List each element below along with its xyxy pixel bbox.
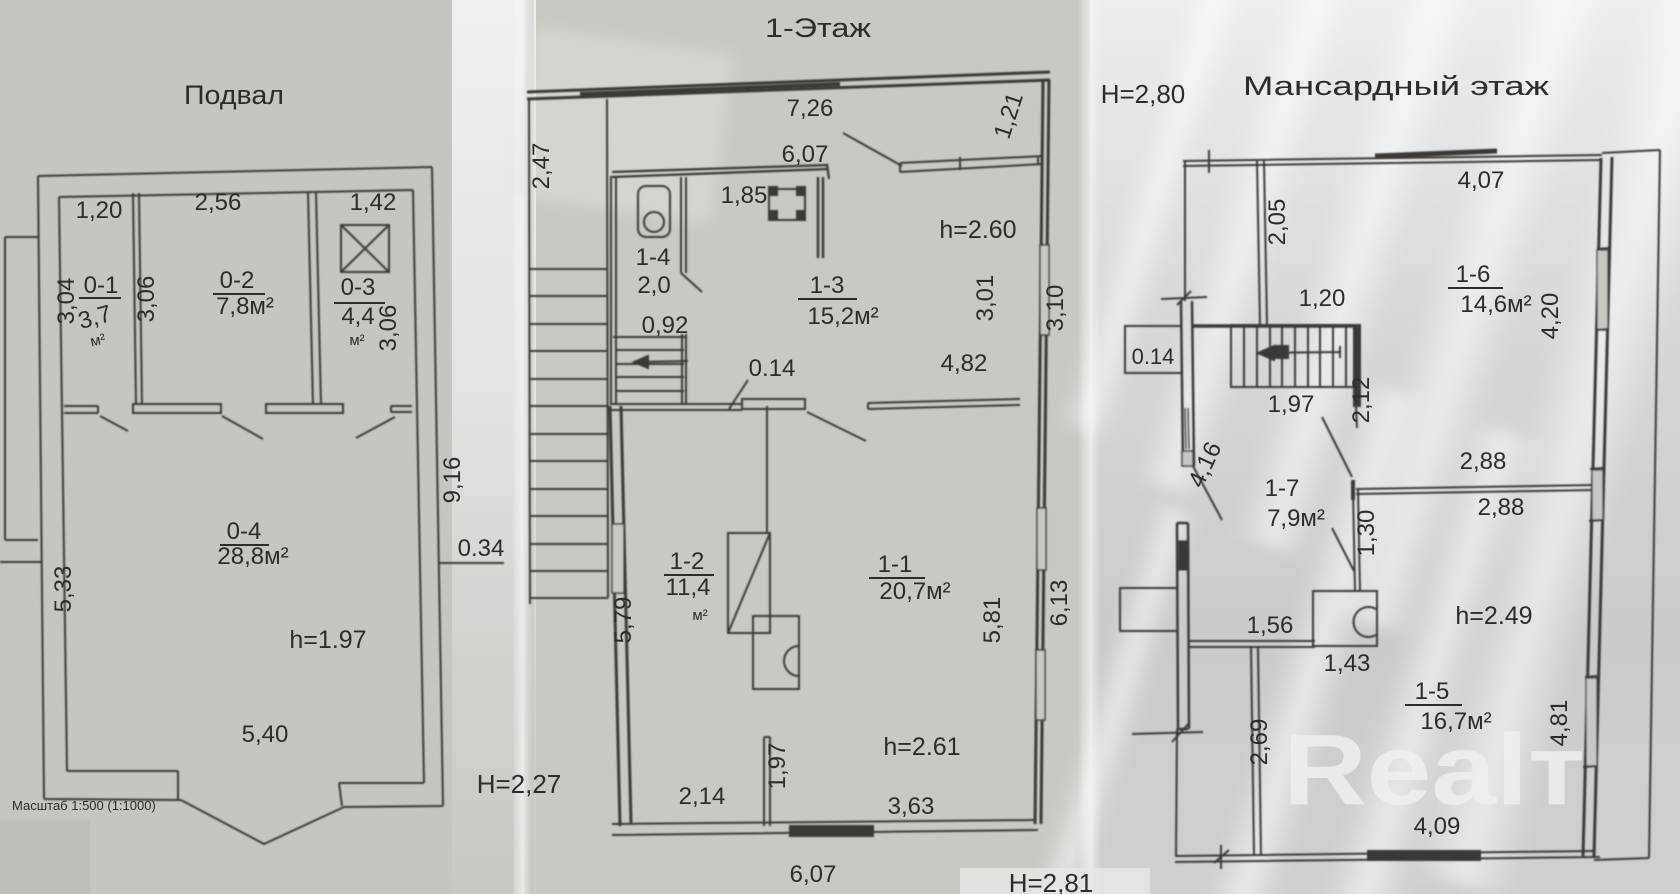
svg-text:6,07: 6,07: [790, 861, 837, 888]
m left tick cross: [1161, 291, 1207, 305]
page seam right: [1078, 0, 1104, 894]
svg-text:h=2.49: h=2.49: [1455, 602, 1532, 630]
svg-text:0,92: 0,92: [642, 312, 689, 339]
m wall 1,56: [1188, 641, 1315, 647]
m eaves outline: [1594, 150, 1660, 860]
m entry wall: [1257, 161, 1267, 325]
ff left stair strip walls: [529, 99, 608, 604]
ff interior stairs: [613, 337, 686, 391]
svg-text:0.14: 0.14: [749, 355, 796, 382]
ff wardrobe: [728, 533, 770, 633]
ff wc partition: [681, 177, 686, 404]
m left wall upper: [1184, 161, 1186, 301]
m left wall mid: [1181, 301, 1194, 466]
svg-text:7,9м²: 7,9м²: [1267, 505, 1325, 532]
basement door swing 0-1: [100, 416, 128, 431]
svg-text:1,42: 1,42: [350, 189, 397, 216]
svg-text:6,13: 6,13: [1046, 580, 1073, 627]
svg-text:h=2.60: h=2.60: [939, 216, 1016, 244]
m leader 7,9: [1332, 528, 1354, 571]
ff outer top wall: [527, 72, 1050, 99]
basement door swing 0-2: [222, 416, 263, 439]
svg-text:Н=2,80: Н=2,80: [1101, 79, 1186, 109]
svg-text:1-4: 1-4: [636, 244, 671, 271]
m top-left tick: [1208, 150, 1210, 173]
m bottom wall: [1175, 851, 1600, 862]
svg-text:h=2.61: h=2.61: [883, 733, 960, 761]
svg-text:м²: м²: [349, 332, 364, 349]
basement inner wall: [59, 190, 424, 783]
svg-text:14,6м²: 14,6м²: [1460, 291, 1531, 318]
svg-text:1-5: 1-5: [1415, 678, 1450, 705]
svg-text:6,07: 6,07: [782, 141, 829, 168]
svg-text:2,56: 2,56: [195, 189, 242, 216]
ff left wall window: [612, 524, 624, 593]
svg-text:3,63: 3,63: [888, 793, 935, 820]
m wall 2,88 horizontal: [1356, 485, 1594, 494]
ff right wall: [1035, 80, 1049, 824]
m stair arrow: [1262, 346, 1340, 358]
svg-text:2,05: 2,05: [1264, 199, 1291, 246]
diagonal streaks right page: [1030, 0, 1680, 894]
basement bay wall: [178, 771, 344, 844]
m top wall: [1183, 155, 1602, 166]
m left wall lower: [1177, 523, 1189, 729]
svg-text:3,10: 3,10: [1042, 285, 1069, 332]
basement outer wall: [38, 167, 443, 807]
ff rooms top wall: [612, 164, 829, 179]
svg-text:2,88: 2,88: [1478, 494, 1525, 521]
svg-text:3,01: 3,01: [972, 275, 999, 322]
svg-text:1,20: 1,20: [76, 197, 123, 224]
m left wall bottom single: [1176, 729, 1177, 856]
ff wall right of chimney: [818, 177, 823, 258]
svg-text:1-7: 1-7: [1265, 475, 1300, 502]
ff door swing to 1-1: [807, 412, 866, 441]
m right wall ticks: [1583, 248, 1610, 767]
ff toilet: [638, 186, 670, 237]
svg-text:Масштаб 1:500 (1:1000): Масштаб 1:500 (1:1000): [12, 798, 156, 813]
svg-text:1,97: 1,97: [1268, 391, 1315, 418]
svg-text:0-1: 0-1: [84, 272, 119, 299]
svg-text:1-6: 1-6: [1456, 261, 1491, 288]
svg-text:Н=2,81: Н=2,81: [1009, 868, 1094, 894]
svg-text:1,30: 1,30: [1353, 510, 1380, 557]
ff 0.14 leader: [729, 380, 748, 409]
ff strip stair treads: [529, 269, 607, 571]
svg-text:0-2: 0-2: [220, 267, 255, 294]
svg-text:1,20: 1,20: [1299, 285, 1346, 312]
basement dim line 0.34: [438, 562, 504, 564]
svg-text:1-1: 1-1: [878, 551, 913, 578]
svg-text:0-4: 0-4: [227, 518, 262, 545]
svg-text:5,33: 5,33: [50, 566, 77, 613]
dark bottom-left corner: [0, 820, 90, 894]
svg-text:Подвал: Подвал: [184, 80, 284, 110]
svg-text:1,56: 1,56: [1247, 612, 1294, 639]
m left wall lower window: [1179, 541, 1188, 570]
basement partition P1: [133, 193, 142, 405]
ff wall right of door: [868, 399, 1020, 409]
m door swing 4,16: [1193, 466, 1222, 520]
m bottom wall dark bar: [1368, 851, 1480, 860]
svg-text:2,14: 2,14: [679, 783, 726, 810]
svg-text:7,26: 7,26: [787, 95, 834, 122]
svg-text:3,06: 3,06: [375, 305, 402, 352]
svg-text:2,0: 2,0: [637, 272, 670, 299]
ff bottom stub wall: [764, 737, 770, 826]
svg-text:0.34: 0.34: [458, 535, 505, 562]
m left wall mid window: [1185, 408, 1189, 449]
ff top right window band: [900, 156, 1043, 172]
svg-text:1,43: 1,43: [1324, 650, 1371, 677]
m right wall: [1583, 157, 1612, 856]
svg-text:Realт: Realт: [1283, 714, 1585, 826]
ff left wall lower: [610, 406, 631, 826]
svg-text:м²: м²: [692, 607, 707, 624]
svg-text:5,81: 5,81: [979, 597, 1006, 644]
svg-text:11,4: 11,4: [666, 574, 711, 601]
ff room 1-4 left wall: [611, 176, 616, 404]
ff boiler: [753, 616, 799, 689]
svg-text:3,06: 3,06: [133, 276, 160, 323]
basement room bottom wall segments: [64, 406, 98, 413]
svg-text:7,8м²: 7,8м²: [216, 293, 274, 320]
svg-text:4,82: 4,82: [941, 350, 988, 377]
m interior wall vertical: [1251, 647, 1261, 855]
svg-text:28,8м²: 28,8м²: [217, 543, 288, 570]
svg-text:4,07: 4,07: [1458, 167, 1505, 194]
basement shaft box with X: [341, 225, 389, 272]
svg-text:15,2м²: 15,2м²: [807, 303, 878, 330]
ff stair arrow: [634, 361, 688, 362]
svg-text:1-3: 1-3: [810, 272, 845, 299]
m right wall windows: [1586, 250, 1608, 766]
svg-text:5,40: 5,40: [242, 721, 289, 748]
svg-text:1,85: 1,85: [721, 182, 768, 209]
m annex box: [1120, 588, 1177, 631]
ff chimney square: [769, 189, 805, 220]
svg-text:2,47: 2,47: [528, 143, 555, 190]
light top-left corner of middle page: [512, 27, 734, 223]
m bottom tick: [1214, 845, 1229, 869]
svg-text:4,4: 4,4: [341, 303, 374, 330]
m wall right of stairs: [1354, 325, 1360, 406]
light sheen on right page: [1090, 0, 1680, 894]
m wall below tick: [1353, 489, 1360, 591]
svg-text:9,16: 9,16: [439, 457, 466, 504]
m stairs: [1231, 325, 1358, 387]
svg-text:4,20: 4,20: [1537, 293, 1564, 340]
svg-text:5,79: 5,79: [610, 597, 637, 644]
svg-text:20,7м²: 20,7м²: [879, 578, 950, 605]
svg-text:3,04: 3,04: [53, 278, 80, 325]
ff divider line: [766, 406, 768, 533]
svg-text:1,97: 1,97: [764, 743, 791, 790]
svg-text:1-2: 1-2: [670, 548, 705, 575]
svg-text:1-Этаж: 1-Этаж: [765, 13, 871, 43]
ff stair bottom wall: [610, 404, 682, 410]
basement partition P2: [308, 192, 321, 405]
basement left annex: [0, 237, 42, 562]
ff right wall windows: [1036, 245, 1049, 720]
ff wc door swing: [681, 273, 702, 292]
ff bottom wall: [612, 820, 1038, 835]
ff bottom door sill: [790, 826, 873, 836]
svg-text:Н=2,27: Н=2,27: [477, 769, 562, 799]
page seam left: [452, 0, 536, 894]
svg-text:0.14: 0.14: [1132, 344, 1175, 369]
svg-text:2,12: 2,12: [1348, 377, 1375, 424]
ff leader 6,07: [843, 133, 902, 166]
svg-text:0-3: 0-3: [341, 274, 376, 301]
m 0.14 box: [1125, 326, 1181, 373]
svg-text:h=1.97: h=1.97: [289, 626, 366, 654]
m leader 1,97: [1322, 417, 1352, 477]
m tick on wall: [1351, 480, 1355, 500]
svg-text:2,88: 2,88: [1460, 448, 1507, 475]
svg-text:Мансардный этаж: Мансардный этаж: [1243, 71, 1549, 101]
ff wall 0.14 with sill: [682, 404, 742, 410]
basement door swing 0-3: [356, 417, 395, 438]
svg-text:2,69: 2,69: [1246, 719, 1273, 766]
m left lower tick: [1132, 722, 1203, 742]
m boiler: [1313, 591, 1377, 646]
